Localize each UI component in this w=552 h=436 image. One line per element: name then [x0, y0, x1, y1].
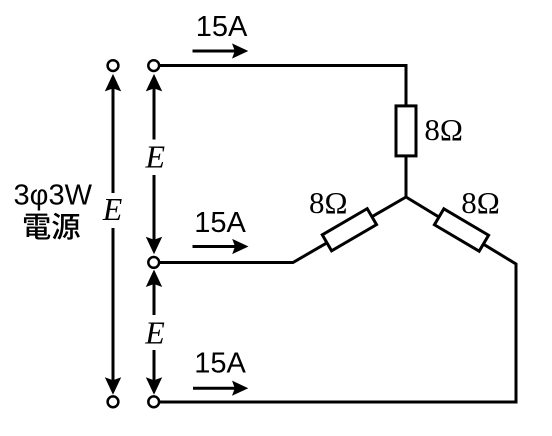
voltage arrow E middle-top (double headed): [146, 74, 162, 254]
svg-text:15A: 15A: [196, 11, 248, 43]
svg-text:15A: 15A: [194, 207, 246, 239]
terminal circle: line W bottom: [148, 396, 159, 407]
terminal circle: source left bottom: [108, 396, 119, 407]
svg-text:15A: 15A: [194, 348, 246, 380]
svg-text:E: E: [145, 139, 166, 175]
voltage arrow E left (double headed, full height): [105, 74, 121, 395]
svg-text:8Ω: 8Ω: [424, 112, 463, 147]
source label kanji GEN (source): [52, 213, 80, 240]
resistor R2 8ohm (left diagonal): [322, 209, 376, 251]
voltage arrow E middle-bottom (double headed): [146, 270, 162, 395]
svg-text:8Ω: 8Ω: [309, 185, 348, 220]
source label kanji DEN (electric): [24, 214, 50, 240]
wire: top line from terminal U across and down to star point: [154, 66, 406, 198]
svg-text:8Ω: 8Ω: [461, 185, 500, 220]
wire: right line from star point down-right, down and along bottom to terminal W: [154, 197, 516, 402]
current arrow 15A top: [193, 43, 249, 58]
resistor R3 8ohm (right diagonal): [434, 209, 488, 251]
resistor R1 8ohm (top, vertical): [396, 106, 416, 156]
terminal circle: line U top: [148, 60, 159, 71]
svg-text:E: E: [144, 315, 165, 351]
terminal circle: source left top: [108, 60, 119, 71]
current arrow 15A middle: [193, 239, 249, 254]
svg-text:E: E: [102, 191, 123, 227]
wire: middle line from terminal V to star point (diagonal): [154, 197, 406, 263]
current arrow 15A bottom: [193, 381, 248, 396]
svg-text:3φ3W: 3φ3W: [14, 179, 93, 211]
terminal circle: line V middle: [148, 257, 159, 268]
